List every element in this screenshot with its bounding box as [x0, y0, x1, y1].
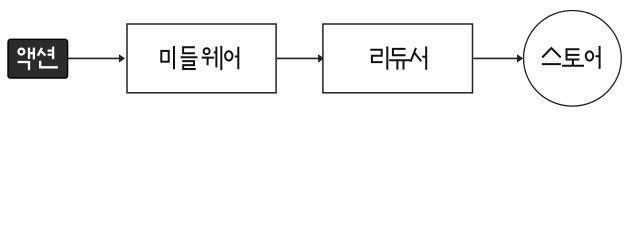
듀: ㅠ [389, 60, 410, 69]
arrow 2 wire [277, 57, 319, 59]
middleware box (미들웨어) [127, 24, 276, 93]
토: ㅗ [562, 60, 584, 66]
미: ㅁ [161, 51, 168, 62]
들: ㄹ [182, 61, 196, 69]
들: ㄷ [183, 47, 195, 53]
text 리듀서 [370, 46, 426, 69]
토: ㅌ [567, 49, 580, 59]
서: ㅓ [422, 46, 426, 69]
션: ㅅ [38, 48, 46, 56]
arrow 2 head [318, 54, 324, 62]
스: ㅅ [542, 48, 561, 58]
들: ㅡ [181, 56, 198, 58]
text 스토어 [542, 46, 600, 69]
액: ㅐ [29, 48, 34, 60]
text 미들웨어 [161, 46, 238, 70]
reducer box (리듀서) [323, 24, 473, 93]
웨: ㅇ [204, 48, 210, 54]
store circle (스토어) [524, 11, 622, 107]
어: ㅇ [586, 51, 593, 60]
미: ㅣ [173, 46, 175, 69]
text 액션 [18, 47, 58, 71]
리: ㅣ [386, 46, 388, 69]
arrow 3 head [517, 54, 523, 62]
어: ㅇ [225, 51, 232, 60]
션: ㅕ [48, 47, 54, 60]
arrow 1 wire [68, 57, 120, 59]
웨: ㅜ [202, 58, 215, 66]
액: ㅇ [19, 49, 25, 55]
arrow 3 wire [474, 57, 518, 59]
액: ㄱ [18, 62, 29, 70]
action box (액션) [8, 39, 68, 78]
스: ㅡ [542, 63, 561, 65]
arrow 1 head [119, 54, 125, 62]
어: ㅓ [235, 47, 238, 70]
서: ㅅ [411, 48, 422, 62]
리: ㄹ [370, 50, 382, 62]
웨: ㅔ [214, 46, 222, 70]
어: ㅓ [596, 46, 600, 69]
듀: ㄷ [393, 49, 406, 55]
션: ㄴ [40, 61, 58, 68]
